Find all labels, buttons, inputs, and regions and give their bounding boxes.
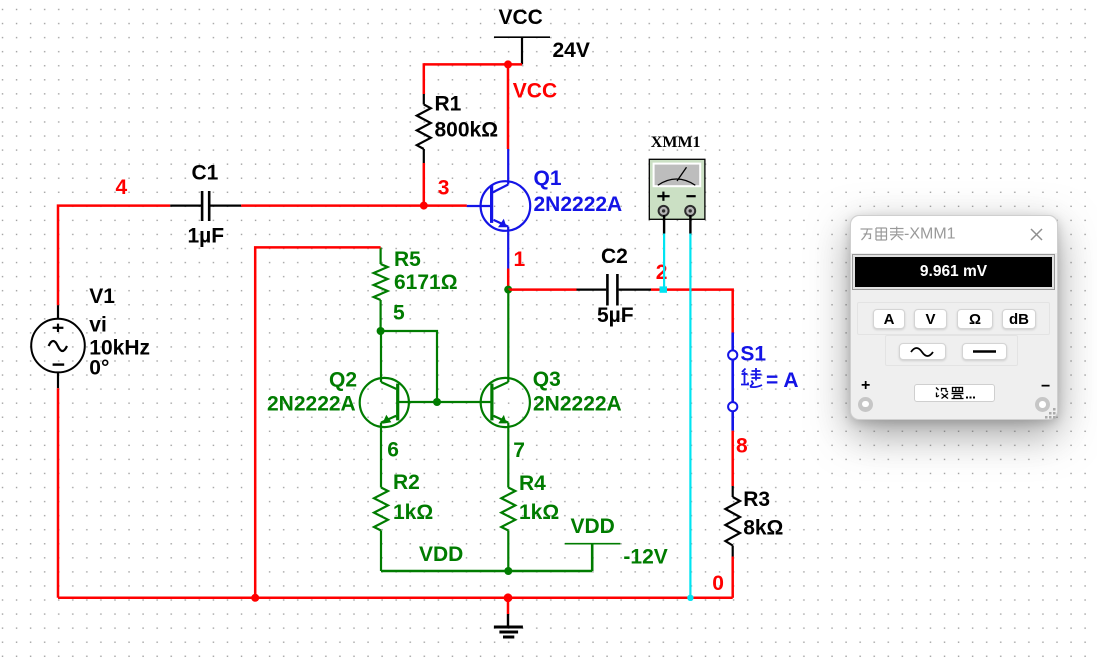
svg-text:Q1: Q1 — [534, 167, 562, 190]
svg-text:C1: C1 — [192, 162, 219, 185]
instrument XMM1 icon — [649, 134, 705, 219]
button A — [873, 309, 905, 329]
svg-text:1kΩ: 1kΩ — [393, 501, 433, 524]
svg-text:2N2222A: 2N2222A — [534, 193, 623, 216]
junction node5 — [377, 327, 385, 335]
wire node5 to bases — [381, 331, 437, 402]
junction ground — [504, 593, 513, 602]
terminal plus jack — [858, 397, 873, 412]
svg-text:Q3: Q3 — [533, 368, 561, 391]
svg-text:6: 6 — [387, 439, 399, 462]
svg-text:1kΩ: 1kΩ — [519, 501, 559, 524]
svg-text:1: 1 — [514, 248, 526, 271]
svg-text:8kΩ: 8kΩ — [743, 517, 783, 540]
svg-text:0°: 0° — [89, 357, 109, 380]
wire probe minus — [689, 234, 691, 598]
junction base rail — [433, 398, 441, 406]
terminal plus label — [861, 377, 870, 395]
resize grip — [1043, 406, 1057, 420]
svg-text:2N2222A: 2N2222A — [533, 393, 622, 416]
transistor Q1 — [467, 149, 530, 269]
power VCC symbol — [494, 6, 590, 64]
button dB — [1002, 309, 1036, 329]
svg-text:VCC: VCC — [499, 6, 543, 29]
panel display bezel — [852, 254, 1055, 291]
switch S1 — [728, 333, 737, 431]
svg-text:5: 5 — [393, 302, 405, 325]
svg-text:8: 8 — [736, 435, 748, 458]
wire XMM1 minus lead — [689, 215, 691, 234]
wire S1 to R3 — [731, 431, 734, 486]
svg-text:3: 3 — [438, 177, 450, 200]
junction probe minus — [687, 595, 693, 601]
panel title — [860, 225, 956, 242]
terminal minus label — [1041, 378, 1050, 396]
svg-text:VDD: VDD — [419, 543, 463, 566]
button DC — [962, 343, 1007, 360]
wire C2 to S1 — [651, 290, 733, 333]
svg-text:XMM1: XMM1 — [651, 134, 701, 151]
capacitor C2 — [577, 274, 652, 306]
ground — [494, 614, 523, 637]
panel display — [855, 257, 1052, 287]
button settings — [914, 384, 995, 402]
svg-text:4: 4 — [116, 176, 128, 199]
svg-text:800kΩ: 800kΩ — [435, 119, 499, 142]
svg-text:R5: R5 — [394, 248, 421, 271]
button V — [914, 309, 947, 329]
wire node1 to C2 — [508, 288, 576, 291]
svg-text:C2: C2 — [601, 245, 628, 268]
svg-text:-12V: -12V — [623, 546, 667, 569]
svg-text:24V: 24V — [553, 39, 590, 62]
svg-text:2N2222A: 2N2222A — [267, 393, 356, 416]
svg-text:5µF: 5µF — [597, 304, 634, 327]
junction probe plus — [660, 286, 668, 292]
wire VCC to Q1 collector — [507, 64, 510, 149]
wire ground rail — [58, 597, 733, 600]
wire ground stem — [507, 598, 510, 614]
resistor R4 — [501, 488, 515, 572]
svg-text:VCC: VCC — [513, 80, 557, 103]
resistor R5 — [374, 247, 388, 331]
wire VDD rail — [381, 570, 592, 573]
resistor R1 — [417, 94, 431, 163]
svg-text:R1: R1 — [435, 93, 462, 116]
terminal minus jack — [1035, 397, 1050, 412]
wire C1 to node3 — [241, 204, 467, 207]
button AC — [899, 343, 946, 360]
resistor R3 — [725, 486, 740, 557]
svg-text:vi: vi — [89, 314, 107, 337]
source V1 — [31, 305, 85, 388]
wire R1 bottom — [423, 163, 426, 206]
svg-text:S1: S1 — [740, 343, 766, 366]
wire VCC horizontal — [424, 63, 522, 66]
junction node1 — [504, 286, 512, 294]
svg-text:R3: R3 — [743, 488, 770, 511]
node 3 junction — [420, 202, 428, 210]
panel group modes — [857, 302, 1050, 335]
wire XMM1 plus lead — [663, 215, 665, 234]
svg-text:R4: R4 — [519, 472, 546, 495]
wire Q1 emitter to node1 — [507, 269, 510, 290]
panel titlebar — [851, 216, 1057, 253]
svg-text:7: 7 — [513, 439, 525, 462]
button Ohm — [957, 309, 993, 329]
svg-text:1µF: 1µF — [188, 225, 225, 248]
junction VDD rail — [504, 567, 512, 575]
wire R3 bottom — [731, 557, 734, 598]
label key = A — [741, 368, 798, 392]
junction VCC node — [504, 60, 512, 68]
svg-text:Q2: Q2 — [329, 369, 357, 392]
multimeter panel XMM1 — [850, 215, 1058, 420]
svg-text:= A: = A — [766, 369, 798, 392]
svg-text:VDD: VDD — [571, 515, 615, 538]
wire base rail — [398, 401, 491, 403]
wire feedback left — [255, 247, 380, 597]
svg-text:V1: V1 — [89, 285, 115, 308]
panel close button — [1030, 228, 1043, 241]
wire R1 top — [423, 63, 426, 94]
power VDD symbol — [565, 515, 668, 571]
svg-text:R2: R2 — [393, 471, 420, 494]
wire V1 to C1 — [58, 206, 170, 306]
transistor Q2 — [360, 331, 409, 488]
junction feedback — [251, 594, 259, 602]
capacitor C1 — [170, 191, 241, 221]
svg-text:6171Ω: 6171Ω — [394, 271, 458, 294]
svg-text:2: 2 — [656, 261, 668, 284]
wire probe plus — [663, 234, 665, 290]
panel group waveform — [885, 335, 1018, 366]
svg-text:0: 0 — [712, 572, 724, 595]
transistor Q3 — [481, 290, 530, 488]
resistor R2 — [374, 488, 388, 572]
wire V1 bottom — [57, 388, 60, 598]
